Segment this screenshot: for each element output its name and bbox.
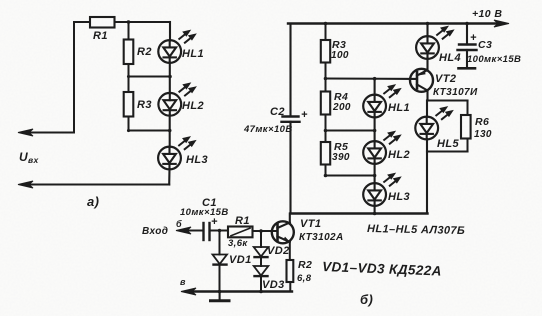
svg-text:10мк×15В: 10мк×15В (180, 207, 229, 218)
svg-text:HL4: HL4 (439, 52, 461, 64)
left rail top segment (289, 24, 291, 117)
node junction R3/R4 (324, 77, 328, 81)
svg-text:HL5: HL5 (437, 138, 459, 150)
wire R2 bottom stub (128, 64, 130, 77)
ground (211, 292, 230, 301)
wire VT1 collector to bottom rail (289, 214, 291, 223)
svg-text:100мк×15В: 100мк×15В (467, 54, 521, 65)
svg-text:VT1: VT1 (300, 218, 321, 230)
svg-text:R2: R2 (137, 46, 152, 58)
svg-text:VD2: VD2 (267, 245, 290, 257)
LED HL3 (158, 138, 208, 170)
capacitor C2 (243, 106, 308, 135)
wire C1 to R1 (210, 230, 229, 232)
resistor R1 (90, 17, 115, 42)
node junction B (168, 129, 172, 133)
input terminal Вход (142, 219, 202, 237)
diode VD1 (213, 231, 252, 292)
wire branch to R6 top (428, 99, 468, 101)
label Uвх (19, 150, 40, 165)
wire node B horizontal (129, 130, 170, 132)
svg-text:HL2: HL2 (388, 149, 410, 161)
node junction R3 top (324, 22, 328, 26)
input terminal arrow (upper, to Uвх) (18, 129, 74, 136)
wire R1 to HL1 column (115, 21, 171, 23)
svg-text:в: в (180, 277, 186, 287)
wire HL3 cathode down (168, 169, 170, 185)
resistor R6 (461, 101, 492, 152)
node junction R4 bottom (324, 129, 328, 133)
node junction VD3 bottom (259, 290, 263, 294)
svg-text:200: 200 (332, 102, 351, 113)
left rail bottom segment (289, 122, 291, 214)
common wire (в) (180, 277, 292, 295)
resistor R1 (б) (228, 215, 253, 249)
wire HL1-HL2 (169, 63, 171, 94)
wire R6 bottom to HL5 column (427, 150, 468, 152)
svg-text:C3: C3 (478, 39, 492, 51)
node junction VD1 top (218, 229, 222, 233)
svg-text:б): б) (360, 292, 373, 307)
svg-text:Вход: Вход (142, 226, 168, 237)
transistor VT2 КТ3107И (PNP) (410, 69, 478, 98)
node junction A (168, 75, 172, 79)
LED HL5 (415, 101, 459, 151)
LED HL2 (158, 84, 204, 116)
resistor R5 (321, 131, 350, 176)
wire HL2-HL3 (б) (374, 164, 376, 184)
svg-text:а): а) (87, 194, 99, 209)
svg-text:VD3: VD3 (262, 279, 285, 291)
wire node A horizontal (129, 76, 171, 78)
wire HL5 cathode to bottom rail (426, 139, 428, 214)
svg-text:3,6к: 3,6к (228, 238, 248, 249)
svg-text:R6: R6 (475, 116, 489, 128)
node junction VD2 top (259, 229, 263, 233)
wire HL3 cathode to bottom rail (374, 206, 376, 214)
svg-text:HL3: HL3 (186, 154, 208, 166)
svg-text:+10 В: +10 В (472, 8, 502, 20)
bottom rail (б) (291, 212, 428, 214)
svg-text:R3: R3 (137, 99, 152, 111)
power rail +10В (288, 8, 509, 27)
svg-text:47мк×10В: 47мк×10В (243, 124, 293, 135)
wire R1 to VT1 base (253, 230, 277, 232)
svg-text:VD1: VD1 (229, 254, 252, 266)
node junction 3 (373, 174, 377, 178)
resistor R3 (б) (321, 24, 349, 79)
svg-text:HL2: HL2 (182, 100, 204, 112)
LED HL2 (б) (363, 132, 410, 164)
diode VD3 (254, 257, 285, 291)
node junction HL3 bottom (373, 212, 377, 216)
svg-text:КТ3107И: КТ3107И (433, 87, 478, 98)
LED HL4 (416, 22, 461, 64)
svg-text:R2: R2 (298, 259, 312, 271)
node 3 wire (326, 174, 375, 176)
node junction R2 top (127, 20, 131, 24)
wire left vertical (73, 22, 75, 133)
svg-text:+: + (470, 32, 477, 44)
svg-text:R1: R1 (93, 30, 108, 42)
svg-text:6,8: 6,8 (297, 273, 312, 284)
svg-text:390: 390 (332, 152, 350, 163)
node junction R3 bottom (127, 129, 130, 132)
wire R2 top stub (128, 22, 130, 40)
node 2 wire (326, 129, 375, 131)
svg-text:100: 100 (331, 50, 349, 61)
svg-text:HL1–HL5 АЛ307Б: HL1–HL5 АЛ307Б (367, 223, 465, 237)
resistor R2 (б) (287, 259, 313, 292)
wire HL1 anode (169, 22, 171, 41)
svg-text:HL3: HL3 (388, 191, 410, 203)
resistor R4 (321, 79, 351, 131)
resistor R3 (124, 77, 152, 131)
node junction R2 bottom (127, 75, 130, 78)
wire HL4 to VT2 emitter (426, 59, 428, 71)
output terminal arrow (lower) (18, 181, 169, 188)
svg-text:КТ3102А: КТ3102А (299, 232, 344, 243)
svg-text:C2: C2 (270, 106, 285, 118)
svg-text:вх: вх (28, 155, 40, 165)
svg-text:HL1: HL1 (388, 102, 410, 114)
diode VD2 (254, 231, 290, 257)
node junction R5 bottom (324, 174, 328, 178)
node 1 wire (base feed) (326, 77, 416, 80)
node junction HL1 top (373, 77, 377, 81)
wire HL1-HL2 (б) (374, 117, 376, 142)
svg-text:б: б (176, 219, 182, 229)
wire VT2 collector down (426, 91, 428, 101)
svg-text:HL1: HL1 (182, 48, 204, 60)
svg-text:VT2: VT2 (435, 73, 456, 85)
svg-text:R1: R1 (235, 215, 250, 227)
LED HL1 (б) (363, 79, 410, 117)
wire VT1 emitter to R2 (289, 242, 291, 260)
node junction VD1 bottom (218, 290, 222, 294)
LED HL1 (158, 31, 204, 63)
transistor VT1 КТ3102А (NPN) (272, 218, 344, 243)
resistor R2 (124, 40, 152, 65)
capacitor C1 (180, 197, 229, 240)
svg-text:130: 130 (474, 129, 492, 140)
svg-text:U: U (19, 150, 28, 164)
wire top to R1 (74, 21, 90, 23)
capacitor C3 (458, 22, 522, 69)
wire HL2-HL3 (169, 115, 171, 147)
LED HL3 (б) (363, 174, 410, 206)
node junction 2 (373, 129, 377, 133)
svg-text:+: + (301, 109, 308, 121)
